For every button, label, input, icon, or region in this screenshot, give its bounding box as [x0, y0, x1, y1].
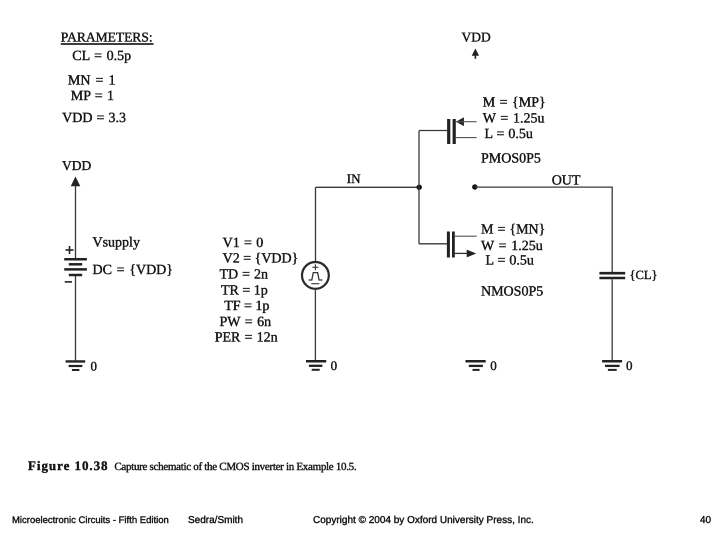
- transistor NMOS channel bar: [452, 232, 455, 258]
- wire pulse source to ground: [314, 289, 316, 360]
- svg-text:Copyright © 2004 by Oxford Uni: Copyright © 2004 by Oxford University Pr…: [313, 515, 534, 526]
- wire IN horizontal: [316, 186, 420, 188]
- capacitor CL top plate: [599, 272, 625, 275]
- ground symbol (pulse source): [306, 361, 326, 370]
- svg-text:0: 0: [626, 358, 633, 373]
- NMOS gate lead wire: [419, 243, 447, 245]
- transistor PMOS channel bar: [453, 119, 456, 144]
- svg-text:Microelectronic Circuits - Fif: Microelectronic Circuits - Fifth Edition: [12, 515, 169, 526]
- capacitor CL bottom plate: [599, 277, 625, 280]
- transistor NMOS drain lead: [455, 235, 477, 237]
- svg-text:W = 1.25u: W = 1.25u: [481, 239, 543, 254]
- transistor PMOS source lead with arrow: [456, 117, 477, 126]
- svg-text:PW = 6n: PW = 6n: [220, 315, 272, 330]
- svg-text:VDD = 3.3: VDD = 3.3: [62, 111, 126, 126]
- svg-text:M = {MN}: M = {MN}: [481, 223, 545, 238]
- svg-text:W = 1.25u: W = 1.25u: [483, 111, 545, 126]
- minus sign of Vsupply: [65, 281, 72, 283]
- pulse waveform icon: [309, 273, 323, 280]
- svg-text:DC = {VDD}: DC = {VDD}: [93, 263, 174, 278]
- svg-text:MN = 1: MN = 1: [68, 73, 116, 88]
- svg-text:MP = 1: MP = 1: [71, 89, 114, 104]
- VDD power symbol arrow (top): [472, 49, 479, 59]
- wire battery to ground: [75, 276, 77, 361]
- svg-text:0: 0: [331, 358, 338, 373]
- plus sign inside pulse source: [312, 264, 318, 270]
- ground symbol (capacitor): [602, 361, 622, 370]
- VDD power symbol arrow (left): [71, 177, 81, 187]
- parameters title: [61, 30, 154, 45]
- transistor NMOS gate bar: [447, 232, 450, 258]
- wire VDD arrow to battery plus: [75, 185, 77, 258]
- battery source Vsupply: [64, 259, 87, 275]
- svg-text:TF = 1p: TF = 1p: [224, 299, 269, 314]
- svg-text:0: 0: [91, 358, 98, 373]
- svg-text:V1 = 0: V1 = 0: [223, 236, 264, 251]
- svg-text:40: 40: [700, 515, 712, 526]
- svg-text:IN: IN: [347, 171, 361, 186]
- svg-text:Figure 10.38Capture schematic: Figure 10.38Capture schematic of the CMO…: [28, 458, 357, 473]
- ground symbol (NMOS): [466, 361, 486, 370]
- svg-text:VDD: VDD: [62, 158, 91, 173]
- svg-text:Vsupply: Vsupply: [93, 236, 140, 251]
- svg-text:NMOS0P5: NMOS0P5: [481, 284, 543, 299]
- transistor PMOS gate bar: [447, 119, 450, 144]
- svg-text:TD = 2n: TD = 2n: [220, 268, 269, 283]
- ground symbol (left): [66, 361, 86, 370]
- junction dot OUT node: [472, 184, 477, 189]
- svg-text:0: 0: [490, 358, 497, 373]
- svg-text:VDD: VDD: [462, 30, 491, 45]
- svg-text:TR = 1p: TR = 1p: [221, 283, 268, 298]
- svg-text:OUT: OUT: [552, 174, 581, 189]
- svg-text:L = 0.5u: L = 0.5u: [486, 253, 534, 268]
- svg-text:PER = 12n: PER = 12n: [215, 331, 278, 346]
- svg-text:{CL}: {CL}: [630, 268, 658, 282]
- svg-text:Sedra/Smith: Sedra/Smith: [188, 515, 243, 526]
- wire OUT horizontal: [475, 186, 613, 188]
- svg-text:V2 = {VDD}: V2 = {VDD}: [223, 252, 299, 267]
- svg-text:CL = 0.5p: CL = 0.5p: [72, 49, 131, 64]
- junction dot IN node: [417, 185, 422, 190]
- wire capacitor to ground: [611, 279, 613, 360]
- svg-text:L = 0.5u: L = 0.5u: [485, 127, 533, 142]
- PMOS gate lead wire: [419, 130, 447, 132]
- pulse voltage source circle: [302, 262, 329, 289]
- transistor NMOS source lead with arrow: [455, 250, 476, 258]
- wire OUT to capacitor: [611, 187, 613, 272]
- transistor PMOS drain lead: [456, 137, 477, 139]
- minus sign inside pulse source: [311, 283, 319, 285]
- svg-text:PARAMETERS:: PARAMETERS:: [61, 30, 153, 45]
- svg-text:M = {MP}: M = {MP}: [483, 96, 546, 111]
- wire gate bus vertical: [418, 131, 420, 244]
- svg-text:PMOS0P5: PMOS0P5: [481, 152, 541, 167]
- wire IN node to pulse source: [315, 187, 317, 261]
- plus sign of Vsupply: [66, 246, 74, 254]
